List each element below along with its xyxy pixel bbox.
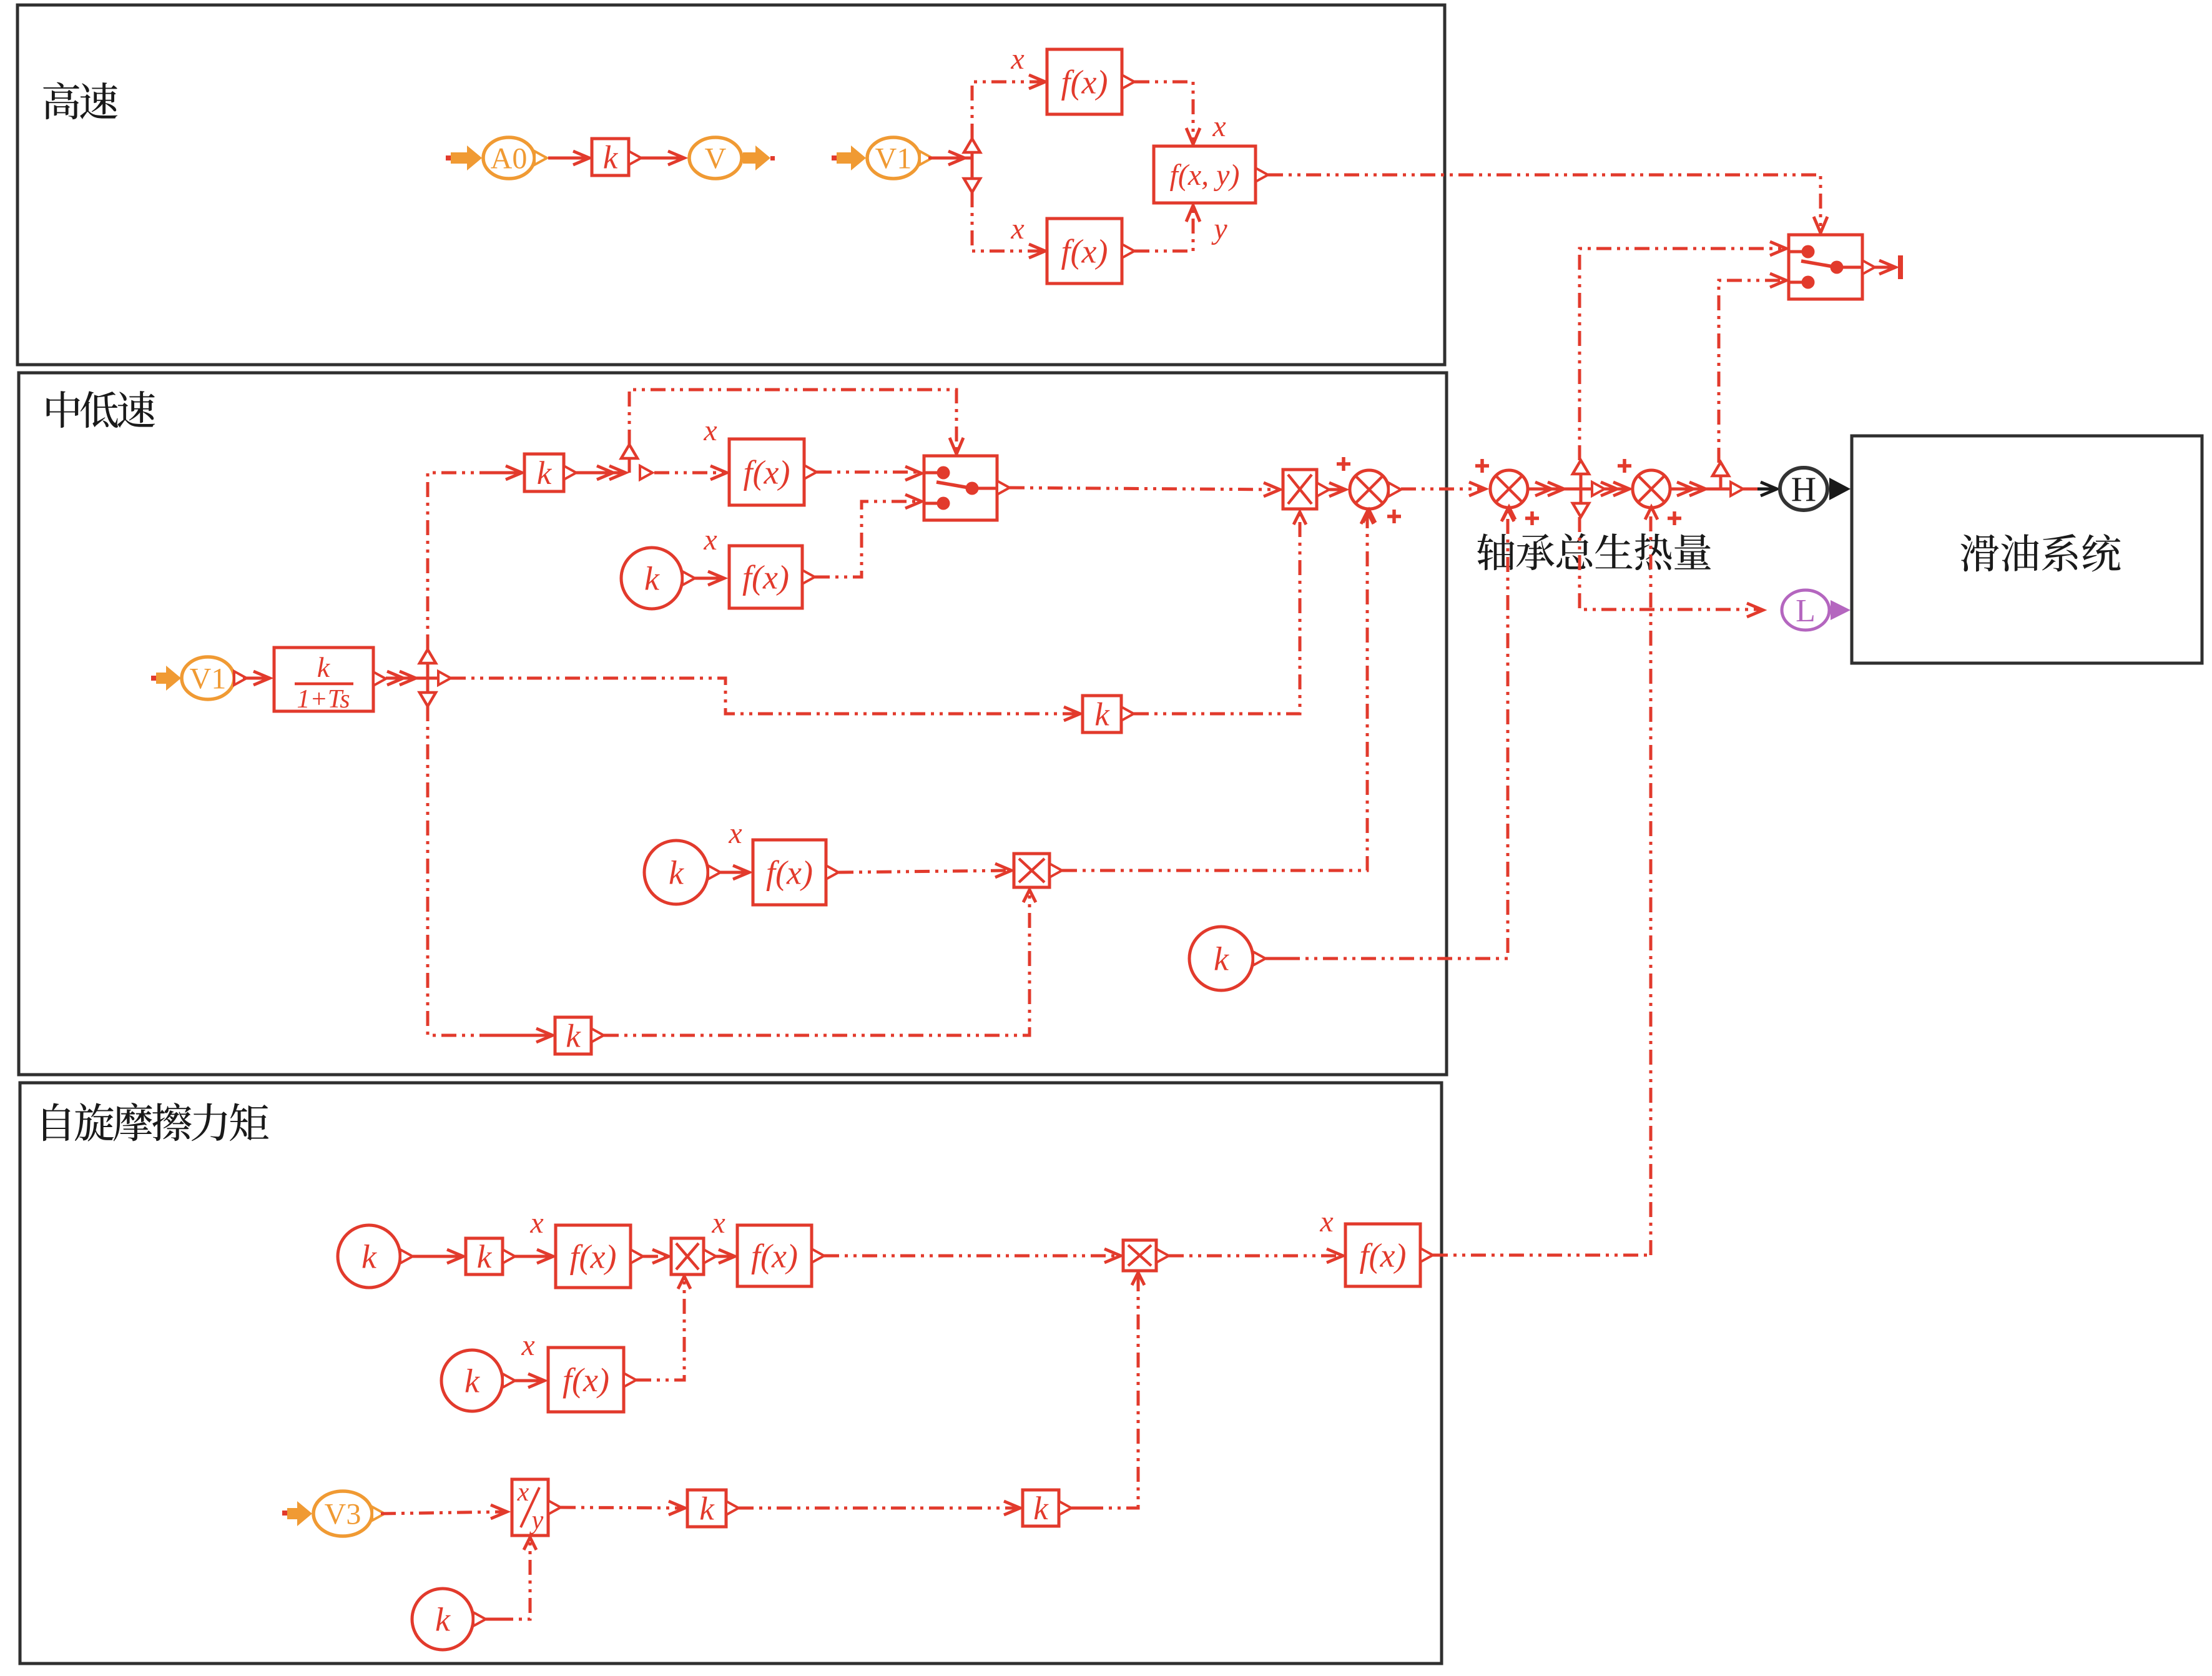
svg-text:x: x	[1010, 42, 1024, 76]
svg-text:y: y	[1211, 212, 1227, 245]
svg-text:x: x	[703, 523, 717, 556]
svg-text:L: L	[1796, 593, 1816, 629]
svg-text:V: V	[705, 142, 727, 175]
svg-text:k: k	[669, 854, 684, 891]
svg-text:f(x): f(x)	[570, 1238, 617, 1275]
svg-text:x: x	[1010, 212, 1024, 245]
svg-text:y: y	[529, 1506, 544, 1535]
svg-text:k: k	[465, 1362, 480, 1399]
svg-text:k: k	[699, 1491, 715, 1527]
svg-text:k: k	[1033, 1491, 1049, 1527]
svg-text:f(x): f(x)	[751, 1237, 798, 1274]
svg-text:V1: V1	[875, 142, 912, 175]
svg-text:x: x	[517, 1478, 529, 1507]
svg-text:A0: A0	[491, 142, 528, 175]
svg-text:f(x): f(x)	[563, 1361, 609, 1399]
svg-text:f(x): f(x)	[744, 453, 790, 491]
svg-text:k: k	[644, 559, 660, 597]
svg-text:x: x	[728, 817, 742, 850]
svg-text:k: k	[435, 1600, 451, 1638]
svg-text:V3: V3	[325, 1497, 361, 1531]
svg-text:x: x	[521, 1329, 534, 1362]
svg-text:k: k	[1094, 697, 1110, 733]
svg-text:f(x): f(x)	[1360, 1236, 1407, 1274]
svg-text:k: k	[566, 1018, 581, 1055]
svg-text:x: x	[1319, 1205, 1333, 1238]
svg-text:f(x): f(x)	[766, 854, 813, 891]
svg-text:f(x, y): f(x, y)	[1170, 159, 1240, 192]
svg-text:V1: V1	[190, 662, 227, 695]
svg-text:f(x): f(x)	[1061, 63, 1108, 101]
svg-text:f(x): f(x)	[742, 558, 789, 596]
svg-text:k: k	[477, 1239, 493, 1275]
svg-text:1+Ts: 1+Ts	[297, 685, 350, 714]
svg-text:H: H	[1791, 470, 1816, 509]
svg-text:k: k	[537, 455, 553, 491]
svg-text:x: x	[1212, 110, 1226, 143]
svg-text:f(x): f(x)	[1061, 232, 1108, 270]
svg-text:k: k	[361, 1238, 377, 1275]
svg-text:x: x	[711, 1206, 725, 1240]
svg-text:k: k	[1214, 940, 1229, 977]
svg-text:k: k	[603, 140, 619, 176]
svg-text:x: x	[703, 414, 717, 447]
svg-text:k: k	[317, 651, 331, 683]
svg-text:x: x	[529, 1206, 543, 1240]
